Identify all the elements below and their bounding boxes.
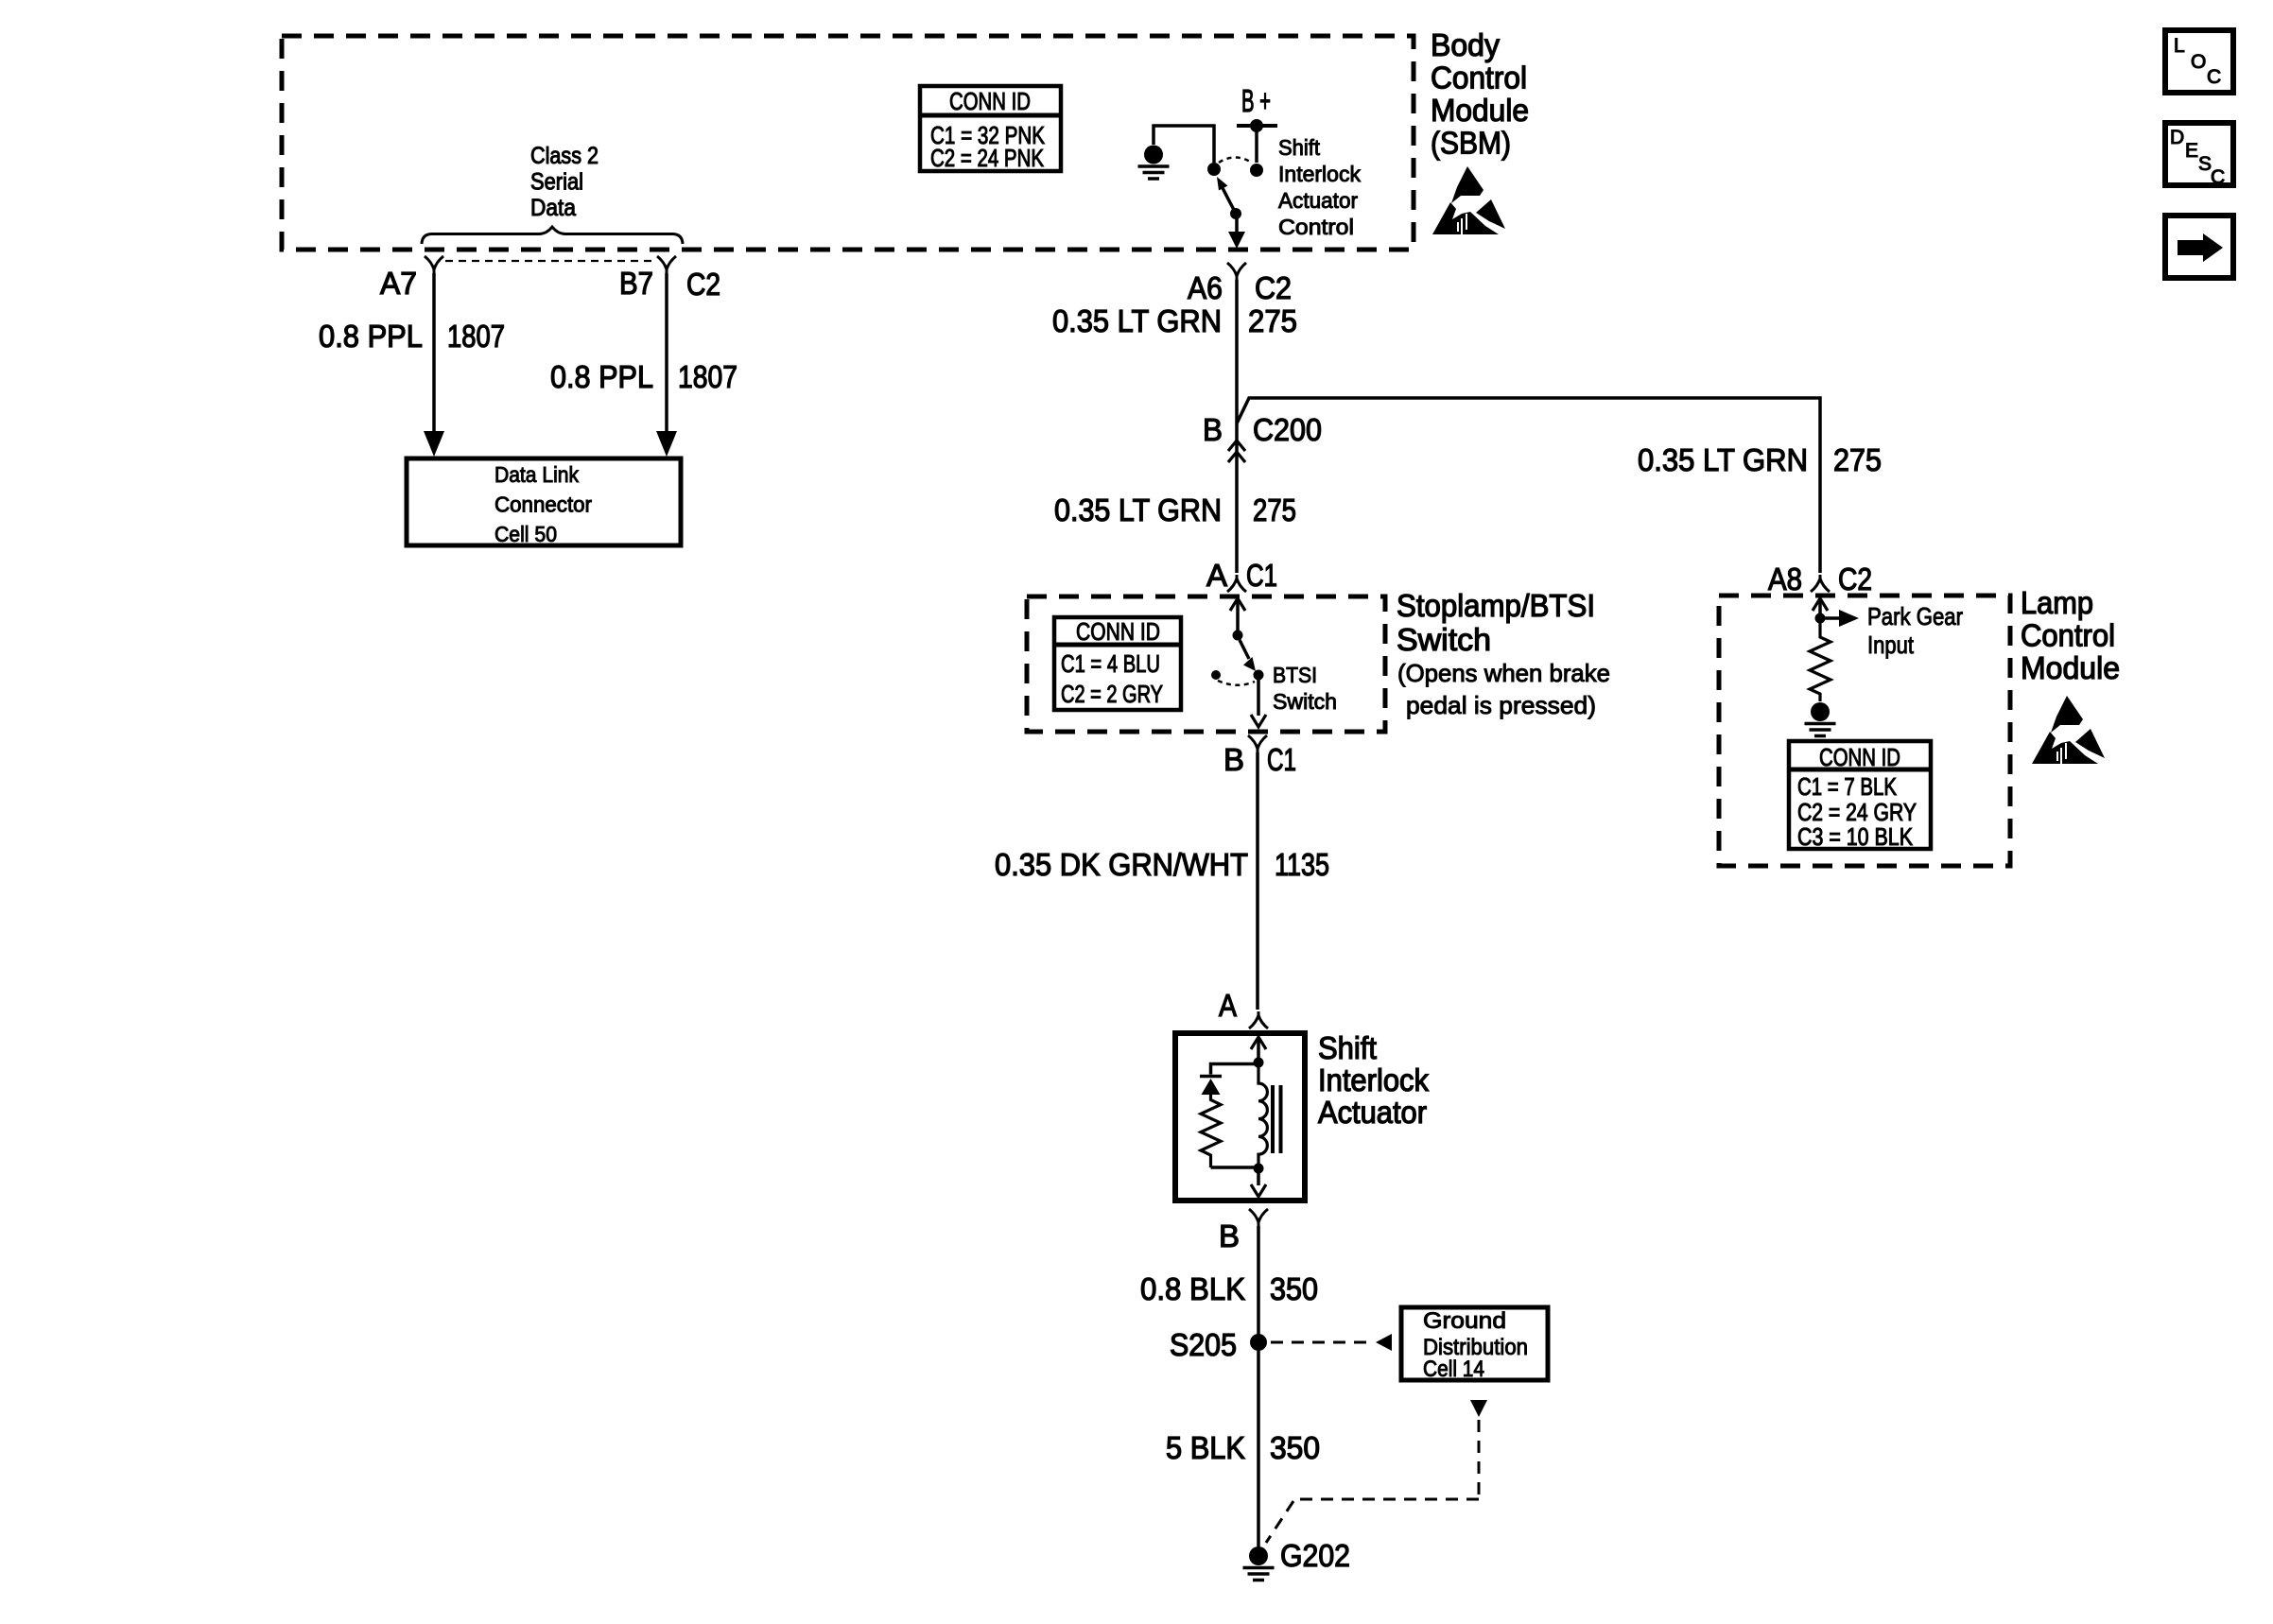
svg-text:C3 = 10 BLK: C3 = 10 BLK [1797,822,1914,851]
svg-text:B: B [1219,1218,1240,1253]
wire blade to pin A6 with down arrow [1228,214,1245,249]
svg-text:Cell 14: Cell 14 [1423,1356,1484,1382]
diode D (bar + triangle) [1200,1077,1222,1096]
wire B7 to Data Link Connector [656,273,677,457]
connector pin B7/C2 (Y) [657,256,676,273]
svg-text:B: B [1203,412,1223,447]
Body Control Module dashed box [282,36,1414,250]
svg-text:CONN ID: CONN ID [949,87,1031,115]
svg-text:0.8 PPL: 0.8 PPL [319,319,423,354]
B+ junction dot [1250,119,1263,132]
svg-text:1807: 1807 [678,359,737,394]
dashed reference line S205 to Ground Distribution [1271,1334,1392,1351]
ESD symbol (LCM) [2032,696,2105,764]
svg-text:Serial: Serial [530,169,583,196]
svg-text:CONN ID: CONN ID [1819,743,1900,771]
svg-text:Body: Body [1431,27,1500,62]
svg-text:Interlock: Interlock [1278,162,1361,186]
BTSI pivot dot [1233,631,1243,641]
Ground Distribution box [1401,1307,1548,1382]
wire A6 down to BTSI switch [1235,280,1239,573]
CONN ID table (BTSI) [1054,617,1181,710]
svg-text:Shift: Shift [1318,1030,1377,1065]
switch blade arrow (shift interlock actuator control) [1217,177,1235,212]
svg-text:C200: C200 [1253,412,1322,447]
LCM input arrow (up) [1813,598,1828,614]
svg-text:0.8 PPL: 0.8 PPL [550,359,653,394]
dashed connector link A7-B7 [445,260,656,262]
icon LOC [2165,30,2233,93]
actuator input arrow (up) [1251,1037,1266,1059]
svg-text:Data Link: Data Link [495,462,579,487]
svg-text:Lamp: Lamp [2021,585,2093,620]
solenoid coil L [1258,1063,1267,1168]
svg-text:C2 = 2 GRY: C2 = 2 GRY [1061,680,1163,708]
inline connector C200 (double chevron) [1228,441,1245,462]
svg-text:Switch: Switch [1273,689,1337,714]
dashed throw arc (BTSI) [1218,681,1255,685]
svg-text:1807: 1807 [447,319,505,354]
BTSI left contact dot [1211,670,1221,680]
dashed throw arc (switch) [1219,158,1252,164]
svg-text:C2 = 24 PNK: C2 = 24 PNK [930,144,1045,172]
svg-text:Stoplamp/BTSI: Stoplamp/BTSI [1397,588,1595,623]
svg-text:Connector: Connector [495,492,592,517]
svg-text:B +: B + [1241,83,1271,118]
wire B down to S205 [1257,1226,1260,1342]
svg-text:A: A [1206,558,1227,593]
svg-text:C: C [2211,166,2225,188]
connector pin B/C1 (Y) [1248,735,1267,752]
svg-text:(Opens when brake: (Opens when brake [1397,659,1610,687]
svg-text:Class 2: Class 2 [530,143,599,169]
svg-text:C2: C2 [1838,561,1872,596]
svg-text:E: E [2185,140,2198,162]
svg-text:(SBM): (SBM) [1431,126,1511,161]
svg-text:D: D [2170,127,2184,148]
svg-text:C2: C2 [686,267,720,302]
svg-text:Interlock: Interlock [1318,1063,1429,1097]
ESD symbol (BCM) [1432,166,1505,234]
svg-text:350: 350 [1270,1430,1320,1465]
ground symbol in BCM [1138,146,1170,180]
svg-text:CONN ID: CONN ID [1076,617,1160,646]
svg-text:A: A [1219,988,1237,1023]
connector pin A/C1 (Y inverted) [1227,575,1246,592]
svg-text:C1 = 4 BLU: C1 = 4 BLU [1061,649,1160,678]
svg-text:0.35 LT GRN: 0.35 LT GRN [1638,442,1808,477]
wire BTSI output down with arrow [1251,675,1266,727]
svg-text:B: B [1223,742,1244,777]
svg-text:0.35 LT GRN: 0.35 LT GRN [1052,303,1222,338]
Stoplamp/BTSI Switch dashed box [1027,596,1385,732]
ground G202 symbol [1243,1546,1275,1581]
svg-text:S: S [2198,153,2212,175]
label Shift Interlock Actuator Control [1278,135,1361,239]
svg-text:Actuator: Actuator [1318,1095,1427,1130]
label BTSI Switch [1273,663,1337,714]
junction dot (actuator bottom) [1254,1164,1264,1174]
svg-text:275: 275 [1833,442,1882,477]
svg-text:pedal is pressed): pedal is pressed) [1406,691,1596,719]
svg-text:1135: 1135 [1275,847,1329,882]
junction dot (LCM) [1815,613,1826,624]
resistor (LCM) [1810,618,1831,701]
svg-text:B7: B7 [619,266,653,301]
label Park Gear Input [1867,602,1963,659]
svg-text:C2: C2 [1255,270,1292,305]
wire S205 down to G202 [1257,1351,1260,1547]
label Stoplamp/BTSI Switch [1397,588,1595,657]
wire top rail [1211,1064,1259,1075]
Lamp Control Module dashed box [1719,596,2010,866]
connector pin A (Y inverted, actuator) [1249,1011,1268,1028]
svg-text:Ground: Ground [1423,1308,1506,1334]
junction dot (actuator top) [1254,1058,1264,1068]
svg-text:A7: A7 [380,266,417,301]
svg-text:5 BLK: 5 BLK [1166,1430,1245,1465]
BTSI output contact dot [1254,670,1264,681]
svg-text:Park Gear: Park Gear [1867,602,1963,631]
svg-text:Switch: Switch [1397,622,1491,657]
park gear input arrow [1820,610,1859,627]
B+ terminal bar [1237,124,1277,128]
BTSI input arrow (up) [1230,598,1245,631]
actuator output arrow (down) [1251,1168,1266,1197]
svg-text:Data: Data [530,195,576,221]
svg-text:275: 275 [1253,492,1296,527]
wire ground to switch bus [1154,126,1214,163]
svg-text:G202: G202 [1280,1538,1350,1573]
svg-text:Input: Input [1867,631,1915,659]
solenoid core bars [1273,1085,1281,1153]
B+ contact dot [1250,164,1263,177]
wire B/C1 down to actuator [1256,752,1259,1010]
svg-text:Control: Control [1431,60,1527,95]
svg-text:C1: C1 [1246,558,1277,593]
Data Link Connector box [407,458,681,546]
svg-text:O: O [2191,51,2206,73]
wire bottom rail [1211,1166,1259,1169]
switch pivot junction [1207,163,1221,176]
Shift Interlock Actuator box [1175,1033,1305,1201]
svg-text:A8: A8 [1768,561,1802,596]
label Body Control Module (SBM) [1431,27,1529,161]
svg-text:Actuator: Actuator [1278,188,1358,213]
label Shift Interlock Actuator [1318,1030,1429,1130]
icon DESC [2165,123,2233,188]
connector pin A6/C2 (Y) [1227,263,1246,280]
BTSI switch blade arrow [1240,640,1256,671]
label Class 2 Serial Data [530,143,599,221]
svg-text:0.35 LT GRN: 0.35 LT GRN [1054,492,1222,527]
branch wire to Lamp Control Module [1237,398,1820,573]
blade bottom junction [1230,208,1241,219]
svg-text:Module: Module [1431,93,1529,128]
connector pin B (Y, below actuator) [1249,1209,1268,1226]
CONN ID table (BCM) [920,86,1061,172]
svg-text:0.8 BLK: 0.8 BLK [1140,1271,1245,1306]
ground symbol (LCM) [1805,702,1836,736]
svg-text:BTSI: BTSI [1273,663,1317,687]
svg-text:L: L [2174,35,2185,57]
svg-text:Cell 50: Cell 50 [495,522,557,546]
label (Opens when brake pedal is pressed) [1397,659,1610,719]
brace over A7/B7 [422,227,683,244]
svg-text:Control: Control [1278,215,1354,239]
wire A7 to Data Link Connector [424,273,444,457]
svg-text:275: 275 [1248,303,1297,338]
svg-text:A6: A6 [1188,270,1223,305]
resistor (actuator) [1201,1095,1221,1167]
dashed reference path Ground Distribution to G202 [1266,1400,1487,1543]
connector pin A8/C2 (Y inverted) [1811,575,1830,592]
svg-text:C: C [2207,66,2221,88]
svg-text:C1 = 7 BLK: C1 = 7 BLK [1797,772,1898,801]
svg-text:350: 350 [1270,1271,1318,1306]
svg-text:C1: C1 [1267,742,1296,777]
svg-text:Control: Control [2021,618,2115,653]
connector pin A7 (Y) [425,256,443,273]
icon forward arrow [2165,216,2233,278]
label Lamp Control Module [2021,585,2120,685]
svg-text:Module: Module [2021,650,2120,685]
svg-text:Shift: Shift [1278,135,1321,160]
svg-text:0.35 DK GRN/WHT: 0.35 DK GRN/WHT [995,847,1248,882]
wire B+ down [1255,126,1258,163]
CONN ID table (LCM) [1789,741,1931,851]
svg-text:S205: S205 [1170,1327,1237,1362]
splice S205 junction dot [1250,1334,1267,1351]
